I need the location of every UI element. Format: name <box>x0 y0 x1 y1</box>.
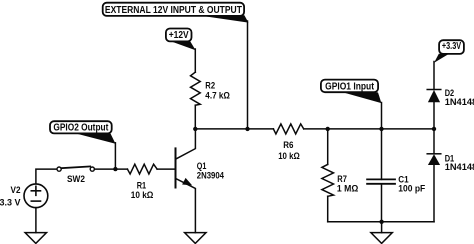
svg-text:SW2: SW2 <box>67 174 85 185</box>
svg-text:+12V: +12V <box>169 30 189 41</box>
resistor R1 <box>127 164 157 201</box>
resistor R7 <box>322 129 359 222</box>
svg-text:2N3904: 2N3904 <box>197 171 225 182</box>
wire: bottom net to ground <box>381 222 383 233</box>
svg-text:10 kΩ: 10 kΩ <box>131 190 154 201</box>
wire: GPIO2 callout drop <box>114 143 116 169</box>
node: external 12V junction <box>245 127 249 131</box>
svg-text:3.3 V: 3.3 V <box>0 198 21 209</box>
callout EXTERNAL 12V INPUT & OUTPUT <box>103 3 249 23</box>
capacitor C1 <box>367 129 425 222</box>
svg-text:+3.3V: +3.3V <box>442 41 461 52</box>
wire: GPIO1 callout drop <box>381 103 383 129</box>
diode D1 <box>427 129 474 222</box>
svg-text:1 MΩ: 1 MΩ <box>337 184 359 195</box>
node: collector / R2 junction <box>193 127 197 131</box>
svg-text:GPIO1 Input: GPIO1 Input <box>325 81 374 92</box>
wire: R6 right to diode branch <box>304 128 434 130</box>
diode D2 <box>427 88 474 129</box>
callout GPIO2 Output <box>50 121 116 144</box>
callout +12V <box>166 29 196 51</box>
node: C1 / GPIO1 junction <box>379 127 383 131</box>
svg-text:GPIO2 Output: GPIO2 Output <box>53 123 109 134</box>
svg-text:100 pF: 100 pF <box>398 184 425 195</box>
wire: +12V to R2 top <box>194 49 196 72</box>
switch SW2 <box>57 166 94 185</box>
svg-text:R6: R6 <box>283 140 293 151</box>
voltage source V2 <box>0 184 48 209</box>
svg-text:V2: V2 <box>11 185 21 196</box>
svg-text:EXTERNAL 12V INPUT & OUTPUT: EXTERNAL 12V INPUT & OUTPUT <box>105 5 242 16</box>
node: diode clamp junction <box>432 127 436 131</box>
node: ground junction on bottom net <box>379 220 383 224</box>
resistor R2 <box>191 72 231 105</box>
callout GPIO1 Input <box>321 80 382 104</box>
wire: R2 bottom to collector node <box>194 105 196 129</box>
svg-text:1N4148: 1N4148 <box>445 97 474 108</box>
ground (bottom net) <box>371 233 392 244</box>
resistor R6 <box>273 124 303 162</box>
wire: main horizontal net at y=129 <box>195 128 273 130</box>
node: R7 junction <box>326 127 330 131</box>
wire: R1 to base <box>157 168 174 170</box>
wire: EXTERNAL callout drop to output node <box>247 21 249 129</box>
wire: V2 top to switch <box>36 169 57 184</box>
callout +3.3V <box>434 40 464 63</box>
wire: V2 bottom to ground <box>35 208 37 233</box>
wire: switch to R1 <box>94 168 127 170</box>
svg-text:1N4148: 1N4148 <box>445 162 474 173</box>
ground (V2) <box>25 233 46 244</box>
wire: +3.3V to D2 cathode <box>433 62 435 90</box>
svg-text:10 kΩ: 10 kΩ <box>278 151 300 162</box>
ground (Q1 emitter) <box>185 233 206 244</box>
transistor Q1 <box>176 129 225 233</box>
svg-text:4.7 kΩ: 4.7 kΩ <box>205 90 230 101</box>
wire: bottom net R7/C1/D1 <box>328 221 434 223</box>
node: GPIO2 junction on base wire <box>113 167 117 171</box>
